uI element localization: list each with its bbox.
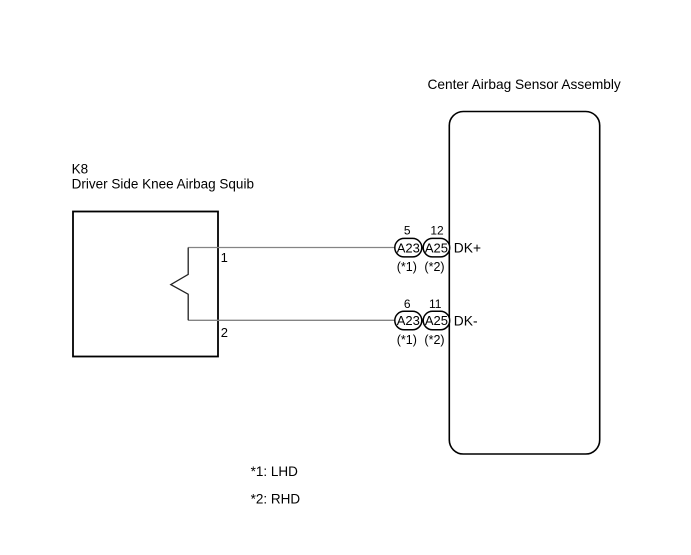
svg-text:Center Airbag Sensor Assembly: Center Airbag Sensor Assembly — [428, 77, 621, 92]
component K8 Driver Side Knee Airbag Squib body — [73, 212, 218, 357]
connector A25 (DK- row) — [423, 311, 450, 330]
squib element (ignition squib chevron) — [171, 248, 188, 321]
svg-text:A25: A25 — [425, 313, 448, 328]
connector A25 (DK+ row) — [423, 238, 450, 257]
wire DK+ (squib pin 1 to connector A23) — [188, 247, 395, 249]
wire DK- (squib pin 2 to connector A23) — [188, 319, 395, 321]
svg-text:(*2): (*2) — [424, 260, 444, 274]
svg-text:A25: A25 — [425, 240, 448, 255]
svg-text:DK+: DK+ — [454, 240, 481, 255]
svg-text:K8: K8 — [72, 162, 89, 177]
svg-text:(*1): (*1) — [397, 260, 417, 274]
svg-text:Driver Side Knee Airbag Squib: Driver Side Knee Airbag Squib — [72, 176, 254, 191]
svg-text:DK-: DK- — [454, 313, 478, 328]
svg-text:2: 2 — [221, 325, 228, 340]
svg-text:5: 5 — [404, 224, 411, 238]
svg-text:1: 1 — [221, 250, 228, 265]
svg-text:(*2): (*2) — [424, 333, 444, 347]
svg-text:6: 6 — [404, 297, 411, 311]
svg-text:11: 11 — [429, 297, 442, 311]
svg-text:A23: A23 — [397, 313, 420, 328]
svg-text:(*1): (*1) — [397, 333, 417, 347]
connector A23 (DK- row) — [395, 311, 422, 330]
svg-text:A23: A23 — [397, 240, 420, 255]
svg-text:*1: LHD: *1: LHD — [251, 464, 299, 479]
connector A23 (DK+ row) — [395, 238, 422, 257]
component U1 Center Airbag Sensor Assembly body — [449, 112, 599, 455]
svg-text:*2: RHD: *2: RHD — [251, 492, 301, 507]
svg-text:12: 12 — [430, 224, 444, 238]
